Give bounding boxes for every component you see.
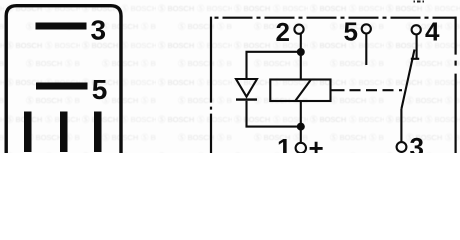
- terminal 5 circle: [362, 24, 371, 33]
- relay coil K1 (box): [270, 80, 330, 102]
- wire terminal 2 down to junction: [300, 34, 302, 52]
- diode V1 (triangle): [236, 79, 257, 97]
- relay coil diagonal: [295, 80, 311, 102]
- junction node upper: [297, 48, 305, 56]
- svg-text:5: 5: [344, 16, 358, 46]
- svg-text:3: 3: [410, 132, 424, 153]
- coil actuation linkage (dashed): [350, 89, 403, 91]
- svg-text:4: 4: [425, 16, 440, 46]
- svg-text:1: 1: [277, 133, 291, 153]
- terminal bar 3 (pictogram): [36, 23, 87, 30]
- diode V1 cathode bar: [236, 98, 257, 100]
- relay housing outline (pictogram): [6, 6, 121, 153]
- svg-text:2: 2: [276, 17, 290, 47]
- wire junction down to coil: [300, 52, 302, 80]
- relay body outline right (chain line): [455, 17, 457, 153]
- coil actuation linkage stub (solid): [331, 89, 345, 91]
- wire coil bottom to junction: [300, 101, 302, 127]
- terminal 5 stub wire: [365, 34, 367, 65]
- relay body outline left (chain line): [210, 17, 212, 153]
- terminal bar 5 (pictogram): [36, 83, 88, 90]
- terminal 4 circle: [412, 25, 421, 34]
- wire junction left to diode branch: [247, 52, 301, 79]
- svg-text:3: 3: [91, 14, 107, 45]
- wire terminal 4 down to contact: [416, 35, 418, 59]
- svg-text:5: 5: [92, 74, 108, 105]
- terminal 2 circle: [294, 25, 303, 34]
- pin 2 (pictogram, middle blade): [60, 112, 68, 153]
- relay body outline top (chain line): [215, 17, 457, 19]
- wire diode to bottom rail: [247, 101, 301, 127]
- stray dotted mark top right: [414, 1, 425, 3]
- junction node lower: [297, 123, 305, 131]
- switch blade (movable contact): [401, 50, 414, 110]
- wire blade down to terminal 3: [400, 109, 402, 142]
- pin 1 (pictogram, left blade): [24, 112, 32, 153]
- terminal 3 circle: [397, 142, 407, 152]
- wire junction to terminal 1: [300, 127, 302, 143]
- fixed contact tick: [411, 58, 419, 60]
- terminal 1 circle: [296, 143, 306, 153]
- pin 3 (pictogram, right blade): [94, 112, 102, 153]
- svg-text:+: +: [309, 133, 324, 153]
